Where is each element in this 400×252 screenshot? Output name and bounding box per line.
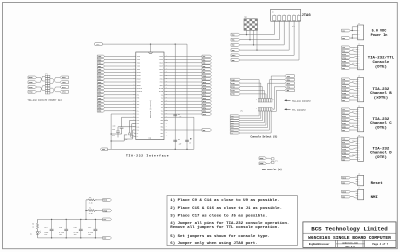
svg-text:C10: C10	[113, 126, 116, 128]
wire CTSB to J3	[350, 90, 355, 91]
wire U9 to CTSD	[164, 103, 202, 105]
svg-text:38: 38	[166, 74, 168, 76]
wire DSR0 to U9	[105, 110, 136, 112]
svg-text:RXB: RXB	[342, 83, 345, 85]
svg-text:DTRD: DTRD	[342, 152, 346, 154]
svg-text:DTR0: DTR0	[98, 107, 102, 109]
wire U9 to DSRA	[164, 110, 202, 112]
label Reset	[371, 182, 384, 186]
net label DSRC (select out)	[230, 126, 240, 129]
svg-text:5) Set jumpers as shown for co: 5) Set jumpers as shown for console type…	[170, 234, 270, 239]
net label RXA (J2)	[342, 49, 351, 52]
wire S1 pin 3	[253, 30, 255, 45]
wire U9 to RXB	[164, 65, 202, 67]
wire RTSD to J5	[350, 145, 355, 147]
label NMI	[371, 196, 379, 200]
svg-text:10: 10	[133, 84, 135, 86]
svg-text:CTSB: CTSB	[342, 89, 346, 91]
svg-text:(DTE): (DTE)	[375, 65, 387, 70]
resistor R5 (LED limiter)	[32, 219, 38, 231]
svg-text:MONB: MONB	[260, 163, 264, 165]
svg-text:NMI: NMI	[371, 196, 379, 200]
wire RTSA to J2	[350, 53, 355, 55]
svg-text:CTSC: CTSC	[342, 119, 346, 121]
label (DTE) J5	[375, 155, 387, 160]
svg-text:IRQB: IRQB	[103, 210, 107, 212]
svg-text:JP1: JP1	[45, 73, 48, 75]
wire TXD to J5	[350, 138, 355, 140]
net label CTSD (J5)	[342, 148, 351, 151]
net label RTSA (U9 right)	[202, 81, 212, 84]
connector J5 channel D connector	[356, 135, 364, 161]
wire GND to J6	[350, 183, 355, 184]
svg-text:RTSC: RTSC	[342, 116, 346, 118]
net label RTSC (U9 right)	[202, 94, 212, 97]
svg-text:TXC: TXC	[342, 109, 345, 111]
net label TXD1	[60, 81, 69, 84]
net label TXA (J2)	[342, 46, 351, 49]
net label TMS	[231, 38, 240, 41]
svg-text:n/c: n/c	[352, 81, 355, 83]
note line 3	[170, 214, 267, 219]
wire RTSB to J3	[350, 85, 355, 87]
net label DTRD (J5)	[342, 151, 351, 154]
wire VCC to J1	[350, 30, 352, 32]
svg-text:J5: J5	[358, 135, 360, 137]
connector J7 NMI header	[356, 188, 364, 200]
net label RTSA (select right)	[285, 82, 295, 85]
svg-text:RXD3: RXD3	[98, 79, 102, 81]
svg-text:13: 13	[133, 93, 135, 95]
net label GND (J2)	[342, 67, 351, 70]
label U9 refdes	[149, 137, 152, 140]
net label RXDD (U9 right)	[202, 78, 212, 81]
svg-text:.1uF: .1uF	[178, 117, 182, 119]
svg-text:T3IN: T3IN	[137, 62, 141, 64]
net label DSRA (J2)	[342, 63, 351, 66]
svg-text:36: 36	[166, 81, 168, 83]
wire RXD1 to U9	[105, 65, 136, 67]
label (xDTE) J3	[374, 95, 388, 100]
svg-text:TB2: TB2	[161, 104, 164, 106]
wire GND to J5	[350, 159, 355, 161]
net label RXD (J5)	[342, 141, 351, 144]
svg-text:T1IN: T1IN	[137, 56, 141, 58]
note line 1	[170, 198, 279, 203]
net label RXDC (select out)	[230, 117, 240, 120]
net label TXDD (U9 right)	[202, 74, 212, 77]
capacitor C17	[88, 219, 97, 238]
net label MONB	[259, 162, 266, 165]
net label TXD (J5)	[342, 137, 351, 140]
net label CTSC (J4)	[342, 118, 351, 121]
title page	[372, 243, 388, 246]
svg-text:15: 15	[133, 100, 135, 102]
title rev	[345, 245, 355, 248]
svg-text:RTS1: RTS1	[62, 87, 66, 89]
net label GND power	[103, 237, 112, 240]
svg-text:C14: C14	[44, 227, 47, 229]
svg-text:RXC: RXC	[342, 113, 345, 115]
power flag VCC	[95, 43, 103, 47]
svg-text:J4: J4	[358, 106, 360, 108]
svg-text:TB1: TB1	[161, 101, 164, 103]
net label RXD1	[60, 76, 69, 79]
capacitor C14	[44, 219, 53, 238]
wire U9 GND pin right	[164, 117, 194, 149]
net label RXC (U9 right)	[202, 71, 212, 74]
svg-text:J1: J1	[358, 23, 360, 25]
svg-text:VCC: VCC	[137, 101, 140, 103]
svg-text:TC1: TC1	[161, 107, 164, 109]
wire U9 to RXDD	[164, 78, 202, 80]
label Console J2	[372, 60, 389, 65]
net label TXC (U9 right)	[202, 68, 212, 71]
label JTAG	[302, 14, 312, 18]
net label RTS0 (U9 left)	[97, 81, 104, 84]
label TIA-232 J5	[372, 147, 389, 151]
svg-text:TD1: TD1	[161, 114, 164, 116]
net label GND (J5)	[342, 158, 351, 161]
label Channel B J3	[370, 91, 392, 96]
svg-text:C4+: C4+	[137, 126, 140, 128]
svg-text:16V: 16V	[44, 234, 47, 236]
U9 left pin stubs and pin numbers	[133, 55, 142, 138]
svg-text:C3+: C3+	[137, 120, 140, 122]
svg-text:Page 4 of 7: Page 4 of 7	[372, 243, 388, 246]
svg-text:1) Place C9 & C14 as close to: 1) Place C9 & C14 as close to U9 as poss…	[170, 198, 279, 203]
svg-text:Channel D: Channel D	[370, 151, 392, 156]
note line 6	[170, 234, 270, 239]
junction top bus C16	[80, 219, 81, 220]
svg-text:3.3K: 3.3K	[89, 203, 93, 205]
svg-text:Mon Intr/Jt (6): Mon Intr/Jt (6)	[262, 168, 282, 171]
net label RTSD (U9 right)	[202, 100, 212, 103]
svg-text:RXD1: RXD1	[62, 77, 66, 79]
resistor R3 pull-up	[86, 197, 97, 205]
svg-text:20: 20	[166, 132, 168, 134]
svg-text:RXD0: RXD0	[29, 77, 33, 79]
svg-text:40: 40	[166, 68, 168, 70]
svg-text:W65C816S SINGLE BOARD COMPUTER: W65C816S SINGLE BOARD COMPUTER	[308, 235, 391, 241]
svg-text:Reset: Reset	[371, 182, 384, 186]
net label DTRA (U9 right)	[202, 106, 212, 109]
net label RTSD (J5)	[342, 144, 351, 147]
svg-text:10: 10	[359, 159, 361, 161]
wire DTRA to J2	[350, 60, 355, 62]
svg-text:14: 14	[133, 97, 135, 99]
svg-text:T2IN: T2IN	[137, 59, 141, 61]
svg-text:CTS2: CTS2	[98, 98, 102, 100]
svg-text:RTSB: RTSB	[342, 86, 346, 88]
net label DTRC (J4)	[342, 122, 351, 125]
wire RXD0 to U9	[105, 59, 136, 61]
wire VCC tie J1	[352, 27, 355, 31]
wire U9 GND2 right	[164, 129, 202, 131]
junction top bus C17	[95, 219, 96, 220]
svg-text:R1OUT: R1OUT	[137, 72, 141, 74]
capacitor C16	[74, 219, 83, 238]
net label RESB	[103, 199, 112, 202]
net label IRQB	[103, 209, 112, 212]
label (DTE) J4	[375, 125, 387, 130]
svg-text:CTS1: CTS1	[62, 92, 66, 94]
svg-text:GND: GND	[231, 133, 233, 135]
wire JTAG pin 6 fan	[240, 21, 299, 60]
svg-text:DSRC: DSRC	[342, 126, 346, 128]
wire RXC to J4	[350, 113, 355, 114]
svg-text:11: 11	[133, 87, 135, 89]
wire U9 to RXA	[164, 59, 202, 61]
svg-text:C12: C12	[112, 135, 115, 137]
svg-text:DCDC: DCDC	[231, 130, 234, 132]
svg-text:28: 28	[166, 106, 168, 108]
label n/c J5 a	[352, 141, 355, 143]
wire CTS0 to U9	[105, 84, 136, 86]
svg-text:RTS0: RTS0	[98, 82, 102, 84]
wire TXC to J4	[350, 108, 355, 110]
net label DSRA (U9 right)	[202, 110, 212, 113]
svg-text:RXB: RXB	[203, 66, 206, 68]
svg-text:DSRD: DSRD	[342, 156, 346, 158]
title company	[311, 226, 388, 233]
label (DTE) J2	[375, 65, 387, 70]
net label CTSB (U9 right)	[202, 90, 212, 93]
svg-text:CTS0: CTS0	[29, 92, 33, 94]
svg-text:Channel B: Channel B	[370, 91, 392, 96]
svg-text:18: 18	[133, 109, 135, 111]
wire DSRC to J4	[350, 127, 355, 128]
svg-text:JTAG: JTAG	[302, 14, 312, 18]
svg-text:RESB: RESB	[103, 200, 107, 202]
svg-text:RC1: RC1	[161, 133, 164, 135]
svg-text:C8: C8	[178, 114, 180, 116]
wire S1 pin 4	[256, 30, 258, 50]
svg-text:TXD2: TXD2	[98, 69, 102, 71]
net label TXA (U9 right)	[202, 55, 212, 58]
net label RTS0	[28, 86, 37, 89]
svg-text:25: 25	[133, 132, 135, 134]
net label TXD0 (U9 left)	[97, 55, 104, 58]
wire RXB to J3	[350, 83, 355, 84]
svg-text:35: 35	[166, 84, 168, 86]
wires console header left (crossover)	[37, 76, 46, 92]
wire U9 pin25 stub	[134, 132, 136, 134]
svg-text:22: 22	[133, 122, 135, 124]
note line 2	[170, 206, 282, 211]
svg-text:0.1uF: 0.1uF	[88, 232, 93, 234]
svg-text:RTS0: RTS0	[29, 87, 33, 89]
svg-text:n/c: n/c	[352, 111, 355, 113]
wire RTSC to J4	[350, 115, 355, 117]
net label RXD0	[28, 76, 37, 79]
connector J6 JTAG port	[271, 9, 301, 28]
label 5.0 VDC	[372, 30, 387, 34]
net label CTS1	[60, 90, 69, 93]
svg-text:R1INB: R1INB	[159, 88, 163, 90]
net label CTSB (J3)	[342, 88, 351, 91]
net label CTSA (U9 right)	[202, 84, 212, 87]
wire RXD to J5	[350, 141, 355, 142]
svg-text:RTS3: RTS3	[98, 101, 102, 103]
net label CTS1 (U9 left)	[97, 90, 104, 93]
svg-text:R1IN: R1IN	[160, 72, 164, 74]
svg-text:TIA-232 Interface: TIA-232 Interface	[126, 154, 169, 158]
net label RTS3 (U9 left)	[97, 100, 104, 103]
svg-text:44: 44	[166, 55, 168, 57]
svg-text:RXC: RXC	[203, 72, 206, 74]
svg-text:23: 23	[166, 122, 168, 124]
svg-text:RTS1: RTS1	[98, 88, 102, 90]
wires console select (right labels)	[268, 76, 285, 111]
svg-text:12: 12	[133, 90, 135, 92]
net label RXD0 (U9 left)	[97, 58, 104, 61]
svg-text:T1OUT: T1OUT	[159, 56, 163, 58]
svg-text:DSRB: DSRB	[342, 96, 346, 98]
wire TXD0 to U9	[105, 55, 136, 57]
svg-text:R3: R3	[89, 197, 91, 199]
arrow TIA-232 console	[284, 99, 311, 102]
label n/c J2 a	[352, 49, 355, 51]
wire CTS1 to U9	[105, 91, 136, 93]
wire DSRD to J5	[350, 155, 355, 156]
wire RTS2 to U9	[105, 94, 136, 96]
title product	[308, 235, 391, 241]
jumper row JP2b (TTL select)	[240, 108, 274, 113]
svg-text:T5IN: T5IN	[137, 69, 141, 71]
capacitor C8	[173, 114, 181, 118]
wires console header right (crossover)	[50, 77, 60, 93]
svg-text:VCC: VCC	[103, 219, 106, 221]
svg-text:DTRC: DTRC	[342, 123, 346, 125]
junction C10 gnd	[110, 133, 111, 134]
label n/c J4 a	[352, 111, 355, 113]
net label TXD0 (select)	[231, 78, 241, 81]
svg-text:Rev 2.0: Rev 2.0	[345, 245, 355, 248]
wires console select staircase (left)	[240, 80, 266, 99]
wire GND tie J1	[352, 34, 355, 38]
label n/c J2 b	[352, 63, 355, 65]
svg-text:RXD: RXD	[342, 142, 345, 144]
svg-text:TXD0: TXD0	[98, 56, 102, 58]
wire GND to J1	[350, 37, 352, 39]
svg-text:NMIB: NMIB	[342, 191, 346, 193]
svg-text:JP4: JP4	[275, 161, 278, 163]
svg-text:J2: J2	[358, 44, 360, 46]
wire CTSA to J2	[350, 57, 355, 58]
net label RXDA (select right)	[285, 78, 295, 81]
net label DSR0 (U9 left)	[97, 110, 104, 113]
svg-text:RB1: RB1	[161, 126, 164, 128]
connector J6 reset header	[356, 174, 364, 186]
net label GND (J4)	[342, 129, 351, 132]
svg-text:GND: GND	[342, 196, 345, 198]
svg-text:JP2: JP2	[240, 111, 243, 113]
label TIA-232 J3	[372, 88, 389, 92]
svg-text:(DTE): (DTE)	[375, 125, 387, 130]
title block frame	[303, 222, 396, 248]
svg-text:NMIB: NMIB	[260, 158, 264, 160]
wire U9 to TXDD	[164, 75, 202, 77]
label TIA-232/TTL J2	[368, 56, 395, 61]
title engineer	[309, 243, 330, 246]
wire DTRB to J3	[350, 92, 355, 94]
wire U9 pin24 stub	[124, 130, 136, 139]
svg-text:C3-: C3-	[137, 123, 140, 125]
wire GND pin3	[352, 33, 355, 35]
svg-text:16: 16	[133, 103, 135, 105]
svg-text:RTS0: RTS0	[231, 86, 235, 88]
connector J4 channel C connector	[356, 106, 364, 132]
net label TDI	[231, 44, 240, 47]
net label TXDC (select out)	[230, 115, 240, 118]
net label DTRA (J2)	[342, 60, 351, 63]
wire JTAG pin 2 fan	[240, 21, 279, 40]
net label DSRB (J3)	[342, 95, 351, 98]
net label RXA (U9 right)	[202, 58, 212, 61]
net label RXD2 (U9 left)	[97, 71, 104, 74]
svg-text:29: 29	[166, 103, 168, 105]
svg-text:GND: GND	[102, 149, 105, 151]
wire JTAG pin 5 fan	[240, 21, 294, 55]
svg-text:J3: J3	[358, 76, 360, 78]
wires console select staircase (bottom)	[240, 111, 271, 133]
wire TXA to J2	[350, 46, 355, 48]
svg-text:3.3K: 3.3K	[89, 213, 93, 215]
svg-text:C16: C16	[74, 227, 77, 229]
label n/c J5 b	[352, 155, 355, 157]
svg-text:TTL Console: TTL Console	[292, 108, 306, 111]
net label RTS2 (U9 left)	[97, 94, 104, 97]
svg-text:1K: 1K	[32, 227, 34, 229]
svg-text:10: 10	[359, 130, 361, 132]
capacitor C15	[59, 219, 68, 238]
net label VCC power	[103, 218, 112, 221]
svg-text:GND: GND	[342, 130, 345, 132]
net label CTSC (U9 right)	[202, 97, 212, 100]
junction R4 rail	[85, 210, 86, 211]
wire S1 pin 1	[246, 30, 248, 34]
svg-text:TD2: TD2	[161, 117, 164, 119]
svg-text:n/c: n/c	[352, 125, 355, 127]
svg-text:.1uF: .1uF	[112, 129, 116, 131]
svg-text:R1OUTB: R1OUTB	[137, 88, 142, 90]
svg-text:CTSD: CTSD	[342, 149, 346, 151]
net label CTS2 (U9 left)	[97, 97, 104, 100]
wire DTR0 to U9	[105, 107, 136, 109]
wire GND to J4	[350, 129, 355, 131]
label n/c J3 a	[352, 81, 355, 83]
junction rail A gnd	[175, 149, 176, 150]
wire RTS1 to U9	[105, 87, 136, 89]
svg-text:ENT: ENT	[137, 94, 140, 96]
svg-text:VCC: VCC	[96, 44, 99, 46]
svg-text:n/c: n/c	[292, 26, 295, 28]
net label DCDA (U9 right)	[202, 113, 212, 116]
net label RTS0 (select)	[231, 85, 241, 88]
junction bottom bus C16	[80, 237, 81, 238]
junction top bus C15	[66, 219, 67, 220]
wire RESB to J6	[350, 176, 355, 179]
svg-text:6) Jumper only when using JTAG: 6) Jumper only when using JTAG port.	[170, 241, 257, 246]
svg-text:23: 23	[133, 125, 135, 127]
svg-text:GND: GND	[103, 238, 106, 240]
svg-text:C1+: C1+	[137, 107, 140, 109]
svg-text:RXD0: RXD0	[231, 83, 235, 85]
net label NMIB	[259, 157, 266, 160]
jumper row JP2a (TIA-232 select)	[256, 99, 274, 102]
net label TXC (J4)	[342, 108, 351, 111]
